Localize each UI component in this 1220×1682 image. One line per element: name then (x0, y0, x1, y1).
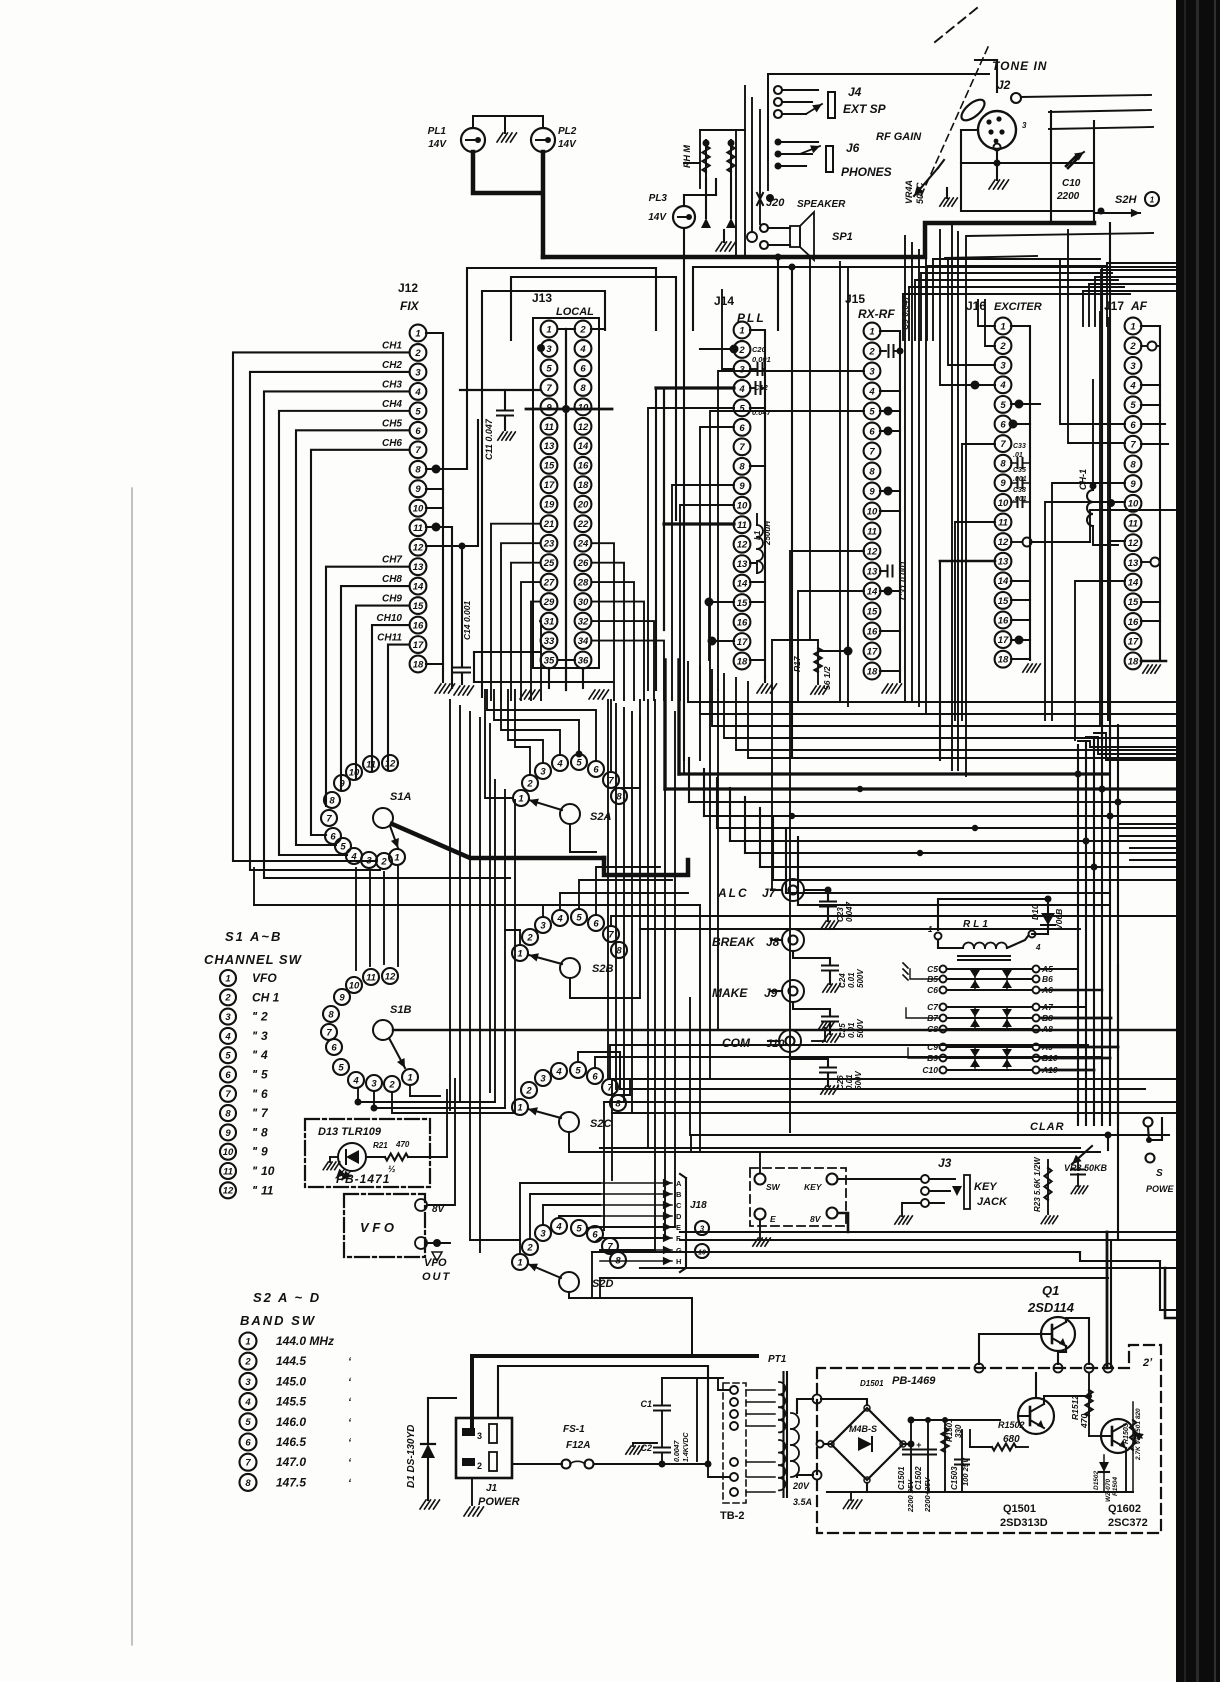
svg-text:7: 7 (326, 813, 332, 824)
wires S2C contact risers (578, 1045, 1100, 1095)
svg-text:0.01: 0.01 (847, 1022, 856, 1038)
connector J18 (600, 1174, 707, 1272)
wire mic pin3 down (961, 151, 1094, 167)
svg-text:ʺ 2: ʺ 2 (252, 1010, 268, 1024)
svg-text:EXCITER: EXCITER (994, 301, 1042, 313)
wires J16 top staircase (903, 259, 1130, 340)
wire right vertical bundle (1078, 223, 1118, 1125)
svg-text:4: 4 (414, 387, 421, 398)
junction circles dashed line (975, 1364, 1113, 1373)
svg-text:6: 6 (593, 918, 599, 929)
svg-text:S1B: S1B (390, 1004, 411, 1016)
junction dots J16 (955, 381, 1040, 645)
svg-text:SPEAKER: SPEAKER (797, 199, 846, 210)
svg-text:3: 3 (1130, 361, 1136, 372)
svg-text:0.047: 0.047 (752, 408, 772, 417)
svg-text:13: 13 (544, 441, 555, 452)
svg-text:14: 14 (1128, 578, 1139, 589)
wire J16 right rail (1011, 326, 1030, 660)
svg-text:S: S (1156, 1168, 1163, 1179)
svg-text:5: 5 (575, 1065, 581, 1076)
svg-text:10: 10 (413, 504, 424, 515)
svg-text:17: 17 (867, 646, 878, 657)
svg-text:14: 14 (413, 582, 424, 593)
svg-text:15: 15 (737, 598, 748, 609)
svg-text:2SC372: 2SC372 (1108, 1517, 1148, 1529)
ground D13 (323, 1157, 340, 1170)
capacitor C1 (640, 1378, 690, 1462)
svg-text:3: 3 (366, 855, 372, 866)
wire vertical pair to power (1107, 965, 1118, 1368)
svg-text:ʺ 3: ʺ 3 (252, 1029, 268, 1043)
svg-text:C31 0.001: C31 0.001 (898, 561, 908, 600)
svg-text:5: 5 (739, 403, 745, 414)
page fold line (131, 488, 133, 1645)
jack J8 BREAK (712, 929, 804, 951)
svg-text:12: 12 (737, 540, 748, 551)
svg-text:7: 7 (326, 1027, 332, 1038)
svg-text:2: 2 (388, 1079, 395, 1090)
wire RL1 top (938, 896, 1052, 931)
svg-text:J17: J17 (1104, 299, 1124, 313)
svg-text:1: 1 (517, 1257, 522, 1268)
svg-text:6: 6 (580, 363, 586, 374)
wires bus upper staircase (688, 662, 1175, 758)
svg-text:15: 15 (998, 596, 1009, 607)
svg-text:8: 8 (245, 1478, 251, 1489)
svg-text:J16: J16 (966, 299, 986, 313)
node 10 circle (695, 1244, 709, 1258)
svg-text:6: 6 (415, 426, 421, 437)
svg-text:1: 1 (517, 948, 522, 959)
svg-text:12: 12 (1128, 538, 1139, 549)
svg-text:PLL: PLL (737, 311, 766, 325)
speaker SP1 (747, 212, 853, 260)
svg-text:C35: C35 (1013, 467, 1026, 474)
svg-text:J6: J6 (846, 141, 860, 155)
svg-text:H: H (676, 1257, 681, 1266)
svg-text:500V: 500V (854, 1071, 863, 1090)
svg-text:1: 1 (407, 1072, 412, 1083)
svg-text:2: 2 (526, 932, 533, 943)
junction dots bundle (1075, 771, 1122, 871)
svg-text:C38: C38 (1013, 487, 1026, 494)
lamp PL1 14V (428, 126, 485, 152)
wire bottom bus (592, 1232, 1175, 1298)
svg-text:7: 7 (608, 929, 614, 940)
svg-text:J7: J7 (762, 886, 777, 900)
svg-text:ʻ: ʻ (348, 1477, 352, 1489)
svg-text:8: 8 (1000, 459, 1006, 470)
switch S2D (512, 1218, 626, 1292)
svg-text:ʺ 4: ʺ 4 (252, 1048, 268, 1062)
svg-text:3: 3 (1000, 361, 1006, 372)
diode D1 DS-130YD (406, 1398, 456, 1509)
switch S1B (321, 968, 418, 1092)
svg-text:RF GAIN: RF GAIN (876, 131, 922, 143)
capacitor C2 (640, 1412, 670, 1468)
svg-text:2: 2 (579, 324, 586, 335)
wire lamp top link (473, 116, 543, 128)
svg-text:3: 3 (1022, 121, 1027, 130)
svg-text:11: 11 (998, 517, 1008, 528)
switch S2C (512, 1062, 626, 1132)
svg-text:J3: J3 (938, 1156, 952, 1170)
svg-text:S2B: S2B (592, 963, 613, 975)
wires J18 feed verticals (600, 1227, 675, 1250)
svg-text:12: 12 (867, 546, 878, 557)
svg-text:9: 9 (1130, 479, 1136, 490)
svg-text:8: 8 (415, 465, 421, 476)
svg-text:S2H: S2H (1115, 194, 1137, 206)
svg-text:J14: J14 (714, 294, 734, 308)
relay RL1 (928, 919, 1041, 960)
wires jack cluster verticals (684, 86, 768, 257)
pot VR3 50KB (1064, 1135, 1108, 1194)
capacitor C1502 2200 25V (914, 1420, 936, 1513)
wires S1B contact stubs (355, 1086, 516, 1113)
svg-text:5: 5 (245, 1417, 251, 1428)
svg-text:12: 12 (998, 537, 1009, 548)
svg-text:E: E (676, 1223, 681, 1232)
ground J1 (464, 1478, 484, 1516)
svg-text:TB-2: TB-2 (720, 1510, 744, 1522)
svg-text:146.0: 146.0 (276, 1415, 306, 1429)
capacitor C11 0.047 (460, 390, 540, 460)
inductor L1 250uH (750, 514, 772, 573)
svg-text:18: 18 (1128, 656, 1139, 667)
svg-text:C7: C7 (927, 1002, 939, 1012)
wires PT1 primary leads (797, 1399, 813, 1477)
switch S2A (513, 754, 627, 824)
svg-text:C23: C23 (836, 907, 845, 922)
svg-text:8: 8 (869, 466, 875, 477)
svg-text:D10: D10 (1030, 904, 1040, 920)
svg-text:7: 7 (1130, 440, 1136, 451)
svg-text:13: 13 (1128, 558, 1139, 569)
connector J13 pins (541, 321, 592, 669)
jack J10 COM (722, 1030, 801, 1052)
ground row left (442, 664, 444, 682)
svg-text:CLAR: CLAR (1030, 1121, 1065, 1133)
svg-text:1: 1 (245, 1336, 250, 1347)
svg-text:4: 4 (868, 386, 875, 397)
svg-text:SW: SW (766, 1182, 781, 1192)
svg-text:14: 14 (578, 441, 589, 452)
svg-text:9: 9 (225, 1128, 231, 1139)
svg-text:LOCAL: LOCAL (556, 306, 594, 318)
capacitor C9 0.047 (880, 294, 910, 357)
svg-text:D: D (676, 1212, 682, 1221)
svg-text:2SD313D: 2SD313D (1000, 1517, 1048, 1529)
svg-text:1: 1 (1150, 195, 1155, 204)
resistor R21 470 (366, 1140, 430, 1174)
capacitor C14 0.001 (454, 546, 472, 684)
svg-text:12: 12 (413, 543, 424, 554)
svg-text:CH1: CH1 (382, 340, 402, 351)
LED D13 (336, 1143, 366, 1180)
svg-text:8: 8 (580, 383, 586, 394)
svg-text:11: 11 (366, 972, 376, 983)
svg-text:6: 6 (869, 426, 875, 437)
svg-text:11: 11 (544, 422, 554, 433)
svg-text:CH 1: CH 1 (252, 990, 280, 1004)
svg-text:147.0: 147.0 (276, 1455, 306, 1469)
ground J12 (435, 684, 455, 693)
svg-text:6: 6 (1000, 419, 1006, 430)
svg-text:5: 5 (1130, 400, 1136, 411)
svg-text:5: 5 (415, 406, 421, 417)
svg-text:10: 10 (349, 767, 360, 778)
svg-text:1: 1 (394, 852, 399, 863)
svg-text:R1503: R1503 (1123, 1423, 1130, 1444)
svg-text:1: 1 (739, 325, 744, 336)
svg-text:CH5: CH5 (382, 418, 402, 429)
svg-text:144.0 MHz: 144.0 MHz (276, 1334, 334, 1348)
pin12 open circle J16 (1011, 510, 1175, 547)
svg-text:8: 8 (615, 1098, 621, 1109)
ground mic (989, 163, 1009, 189)
transistor Q1602 (1101, 1419, 1135, 1453)
label RF GAIN (876, 131, 922, 143)
svg-text:0.047: 0.047 (845, 901, 854, 922)
choke CH-1 (1078, 380, 1118, 545)
connector J17 pins (1125, 318, 1142, 670)
svg-text:ʻ: ʻ (348, 1356, 352, 1368)
label Q1501 2SD313D (1000, 1503, 1048, 1529)
svg-text:4: 4 (224, 1031, 231, 1042)
wire J13 bottom (474, 652, 612, 688)
svg-text:3: 3 (869, 366, 875, 377)
wire S1B pole out (393, 1029, 1175, 1031)
svg-text:3: 3 (245, 1377, 251, 1388)
capacitor C26 0.01 500V (790, 1052, 863, 1094)
ground J17 (1143, 665, 1161, 673)
resistor R1512 470 (1070, 1373, 1093, 1429)
svg-text:ʺ 11: ʺ 11 (252, 1183, 274, 1197)
svg-text:5: 5 (1000, 400, 1006, 411)
diode D10 V06B (1030, 899, 1064, 934)
node S2H(1) (1094, 192, 1159, 217)
wire middle bus bundle (665, 758, 1175, 905)
svg-text:14: 14 (867, 586, 878, 597)
capacitor C12 0.047 (750, 382, 772, 417)
svg-text:KEY: KEY (804, 1182, 823, 1192)
wires J15 left stair (710, 371, 864, 1132)
pot VR4A 500C (904, 160, 944, 204)
wire bus y267 (693, 264, 1175, 331)
svg-text:16: 16 (413, 620, 424, 631)
capacitor C10 2200 (1056, 152, 1084, 202)
svg-text:C14 0.001: C14 0.001 (462, 601, 472, 640)
connector J14 PLL label (714, 294, 766, 325)
svg-text:8: 8 (225, 1109, 231, 1120)
svg-text:Q1602: Q1602 (1108, 1503, 1141, 1515)
svg-text:9: 9 (339, 778, 345, 789)
label TONE IN (935, 8, 1047, 73)
svg-text:C20: C20 (752, 345, 767, 354)
svg-text:BAND SW: BAND SW (240, 1313, 316, 1328)
svg-text:4: 4 (555, 1221, 562, 1232)
svg-text:1: 1 (546, 324, 551, 335)
wire D13 out (430, 1090, 447, 1157)
svg-text:14V: 14V (648, 212, 667, 223)
svg-text:12: 12 (223, 1186, 234, 1197)
wire CLAR (691, 1121, 1169, 1139)
diode matrix group1 (927, 964, 1053, 995)
svg-text:8: 8 (739, 462, 745, 473)
svg-text:2: 2 (526, 778, 533, 789)
svg-text:Q1: Q1 (1042, 1283, 1059, 1298)
svg-text:R1504: R1504 (1112, 1476, 1119, 1496)
svg-text:WZ-070: WZ-070 (1105, 1479, 1112, 1503)
svg-text:S2D: S2D (592, 1278, 613, 1290)
svg-text:1: 1 (225, 973, 230, 984)
svg-text:23: 23 (543, 539, 555, 550)
svg-text:J18: J18 (690, 1200, 707, 1211)
svg-text:CH2: CH2 (382, 360, 402, 371)
capacitor C23 0.047 (804, 887, 854, 930)
svg-text:C9: C9 (927, 1042, 938, 1052)
svg-text:S2C: S2C (590, 1118, 612, 1130)
wires J13 right stair (592, 543, 664, 700)
switch S2B (512, 909, 627, 978)
svg-text:146.5: 146.5 (276, 1435, 306, 1449)
wire SW up (718, 1140, 760, 1173)
svg-text:F: F (676, 1234, 681, 1243)
resistor R1502 680 (962, 1420, 1028, 1451)
svg-text:PHONES: PHONES (841, 165, 892, 179)
svg-text:AF: AF (1130, 299, 1148, 313)
svg-text:28: 28 (577, 578, 589, 589)
svg-text:14: 14 (737, 579, 748, 590)
svg-text:7: 7 (245, 1458, 251, 1469)
svg-text:5: 5 (869, 406, 875, 417)
wires Q1 (979, 1318, 1089, 1364)
svg-text:10: 10 (1128, 499, 1139, 510)
svg-text:ALC: ALC (717, 886, 749, 900)
svg-text:18: 18 (998, 655, 1009, 666)
svg-text:PL1: PL1 (428, 126, 447, 137)
wire PL1 drop thick (473, 152, 540, 193)
svg-text:C6: C6 (927, 985, 938, 995)
svg-text:CH3: CH3 (382, 379, 402, 390)
svg-text:7: 7 (225, 1089, 231, 1100)
ground C2 (626, 1443, 657, 1454)
svg-text:2: 2 (1129, 341, 1136, 352)
svg-text:3: 3 (540, 920, 546, 931)
svg-text:D1502: D1502 (1093, 1470, 1100, 1490)
svg-text:145.5: 145.5 (276, 1395, 306, 1409)
wire long y905 (254, 868, 700, 905)
svg-text:COM: COM (722, 1036, 751, 1050)
svg-text:RX-RF: RX-RF (858, 307, 895, 321)
svg-text:17: 17 (544, 480, 555, 491)
wires mid column long verticals (608, 690, 718, 1250)
svg-text:3: 3 (415, 367, 421, 378)
wires J12 left nest upper (233, 352, 510, 878)
wire long verticals mid (620, 760, 700, 1152)
svg-text:VFO: VFO (252, 971, 277, 985)
svg-text:8V: 8V (810, 1214, 822, 1224)
connector J16 EXCITER label (966, 299, 1042, 313)
junction dots bus2 (789, 786, 978, 856)
wires J13 left stair (491, 524, 541, 700)
svg-text:CHANNEL SW: CHANNEL SW (204, 952, 303, 967)
svg-text:VR4A: VR4A (904, 180, 914, 204)
wire J1 feed thick (472, 1356, 757, 1428)
ground jack cluster (716, 230, 736, 251)
terminal strip TB-2 (723, 1383, 746, 1503)
ground lamp mid (497, 116, 517, 142)
svg-text:5: 5 (340, 841, 346, 852)
svg-text:M4B-S: M4B-S (849, 1424, 877, 1434)
wire J13 row links (526, 329, 612, 660)
wire S2C pole drop (569, 1132, 1100, 1152)
capacitor C1501 2200 25V (897, 1417, 922, 1514)
svg-text:11: 11 (366, 759, 376, 770)
svg-text:10: 10 (349, 980, 360, 991)
resistor R17 56 1/2 (772, 640, 848, 700)
svg-text:R21: R21 (373, 1141, 388, 1150)
svg-text:ʻ: ʻ (348, 1417, 352, 1429)
svg-text:33: 33 (544, 636, 555, 647)
svg-text:4: 4 (1035, 943, 1041, 952)
svg-text:18: 18 (578, 480, 589, 491)
svg-text:6: 6 (1130, 420, 1136, 431)
label S1 A-B CHANNEL SW (204, 929, 303, 967)
svg-text:9: 9 (339, 992, 345, 1003)
wire PL3 drop (683, 228, 685, 760)
wire J17 left rail long (1100, 312, 1108, 726)
jack J7 ALC (717, 879, 804, 901)
jack J3 KEY JACK (921, 1156, 1008, 1209)
svg-text:16: 16 (578, 461, 589, 472)
ground J16 (1023, 664, 1041, 672)
svg-text:8: 8 (616, 945, 622, 956)
svg-text:5: 5 (576, 1223, 582, 1234)
resistor R23 5.6K 1/2W (1033, 1156, 1058, 1224)
wire J14 right rail (750, 330, 765, 677)
svg-text:7: 7 (1000, 439, 1006, 450)
wires right band stubs (1120, 824, 1175, 860)
transistor Q1 2SD114 (1027, 1283, 1075, 1351)
svg-text:2: 2 (477, 1461, 482, 1471)
svg-text:CH6: CH6 (382, 438, 402, 449)
wire KEY to J3 (838, 1178, 921, 1180)
svg-text:PT1: PT1 (768, 1354, 787, 1365)
svg-text:RH M: RH M (682, 145, 692, 168)
svg-text:2: 2 (224, 993, 231, 1004)
svg-text:0.01: 0.01 (845, 1074, 854, 1090)
ground J10 stub (812, 1022, 834, 1041)
svg-text:RL1: RL1 (963, 919, 991, 930)
connector J17 AF label (1104, 299, 1148, 313)
arrow checks J20 (701, 218, 736, 228)
ground E terminal (753, 1220, 771, 1246)
capacitor C31 0.001 (880, 561, 908, 600)
jack J4 EXT SP (774, 85, 887, 118)
svg-text:7: 7 (546, 383, 552, 394)
svg-text:V06B: V06B (1054, 909, 1064, 930)
wire S1A pole out thick (392, 824, 688, 875)
svg-text:14: 14 (998, 576, 1009, 587)
svg-text:ʻ: ʻ (348, 1376, 352, 1388)
svg-text:CH10: CH10 (376, 613, 402, 624)
svg-text:8: 8 (1130, 459, 1136, 470)
svg-text:2ʼ: 2ʼ (1142, 1357, 1153, 1369)
svg-text:6: 6 (593, 764, 599, 775)
